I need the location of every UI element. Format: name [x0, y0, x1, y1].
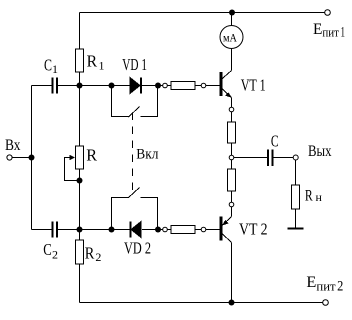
wire row1 left	[32, 85, 52, 87]
wire row2 right	[142, 229, 220, 231]
resistor R (rheostat body)	[76, 146, 84, 169]
svg-text:пит: пит	[316, 279, 336, 293]
pin circle row2 right	[201, 227, 206, 232]
wire R1 bottom	[79, 72, 81, 146]
pin circle row1 right	[201, 83, 206, 88]
node row2-VD2 out	[155, 227, 161, 233]
wire row2 mid	[58, 229, 130, 231]
svg-text:мА: мА	[223, 30, 237, 44]
svg-text:C: C	[43, 240, 52, 259]
wire left main column upper	[79, 13, 81, 50]
svg-text:VT 2: VT 2	[239, 220, 268, 239]
svg-text:1: 1	[341, 25, 346, 41]
wire input column	[31, 86, 33, 230]
pin circle VT2 emitter	[229, 202, 234, 207]
switch S2	[112, 198, 129, 230]
wiper arrow of R	[65, 158, 80, 181]
svg-text:VD 1: VD 1	[122, 55, 147, 74]
svg-text:R: R	[305, 188, 313, 205]
wire row1 mid	[58, 85, 130, 87]
node row1-VD1 out	[155, 83, 161, 89]
capacitor C output	[267, 150, 269, 167]
svg-text:Вкл: Вкл	[136, 146, 159, 162]
svg-text:2: 2	[337, 279, 343, 295]
resistor R1	[76, 49, 84, 72]
resistor emitter VT2	[228, 169, 236, 191]
svg-text:2: 2	[52, 247, 58, 261]
pin circle row1 left	[163, 83, 168, 88]
resistor emitter VT1	[228, 122, 236, 143]
terminal Vx	[7, 155, 12, 160]
resistor Rn	[292, 185, 300, 209]
node Vx	[29, 155, 35, 161]
capacitor C2	[52, 222, 54, 238]
wire Vx input	[12, 157, 32, 159]
svg-text:1: 1	[52, 62, 58, 76]
terminal Vyh	[293, 155, 298, 160]
node row2-R2	[77, 227, 83, 233]
pin circle row2 left	[163, 227, 168, 232]
wire output row	[232, 157, 268, 159]
wire meter to VT1 collector	[231, 49, 233, 71]
terminal Epit1	[325, 10, 331, 16]
node wiper	[77, 178, 83, 184]
svg-text:пит: пит	[322, 25, 339, 39]
svg-text:C: C	[44, 56, 52, 75]
pin circle VT1 emitter	[229, 107, 234, 112]
resistor base VT2	[171, 225, 195, 233]
junction dot bottom rail	[229, 300, 235, 306]
svg-text:VT 1: VT 1	[241, 76, 266, 95]
resistor R2	[76, 240, 84, 264]
wire row1 right	[142, 85, 220, 87]
wire below R	[79, 169, 81, 240]
svg-text:1: 1	[99, 59, 105, 73]
resistor base VT1	[171, 81, 195, 89]
wire dashed Vkl control	[131, 113, 133, 191]
svg-text:R: R	[85, 243, 95, 262]
svg-text:VD 2: VD 2	[124, 239, 151, 258]
svg-text:R: R	[87, 52, 98, 71]
diode VD1	[130, 78, 140, 94]
pin circle output node	[229, 155, 234, 160]
node row1-R1	[77, 83, 83, 89]
wire top rail	[80, 12, 325, 14]
svg-text:C: C	[271, 131, 279, 150]
svg-text:R: R	[86, 146, 97, 165]
node row2-switch	[109, 227, 115, 233]
ground	[288, 228, 304, 230]
wire row2 left	[32, 229, 52, 231]
switch S1	[112, 86, 129, 117]
wire to output node	[231, 143, 233, 169]
terminal Epit2	[323, 300, 329, 306]
transistor VT1	[220, 72, 223, 96]
wire R2 to bottom rail	[79, 264, 81, 303]
junction dot top rail	[229, 10, 235, 16]
capacitor C1	[52, 78, 54, 94]
svg-text:2: 2	[95, 250, 101, 264]
svg-text:н: н	[316, 192, 322, 204]
wire Rn bottom	[295, 209, 297, 229]
transistor VT2	[220, 217, 223, 241]
node row1-switch	[109, 83, 115, 89]
meter mA	[220, 26, 243, 49]
svg-text:E: E	[306, 274, 316, 291]
wire bottom rail	[80, 302, 323, 304]
svg-text:Вх: Вх	[5, 137, 21, 154]
wire meter top	[231, 13, 233, 26]
svg-text:E: E	[313, 21, 322, 38]
svg-text:Вых: Вых	[308, 143, 332, 160]
wire Rn top	[295, 160, 297, 185]
diode VD2	[131, 222, 141, 238]
wire to VT2	[231, 191, 233, 217]
